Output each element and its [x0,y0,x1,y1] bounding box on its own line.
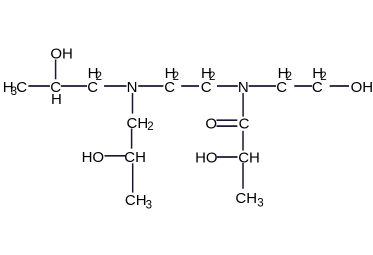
wire bond CH2-N1 [104,85,126,87]
wire bond HO-CH left branch [105,155,127,157]
wire bond CH-OH vertical [55,60,57,80]
wire bond HO-CH right branch [217,156,238,158]
node CH2 carbon C4 with H2 above [201,65,216,96]
wire bond CH-CH3 right branch vertical [242,163,244,189]
svg-text:C: C [16,79,27,96]
wire bond H3C-CH [28,85,50,87]
wire bond N1 vertical to CH2 [132,93,134,114]
wire double bond C=O upper line [217,119,238,121]
svg-text:C: C [164,79,175,96]
svg-text:C: C [87,79,98,96]
wire bond CH2-CH left branch vertical [131,129,133,149]
svg-text:3: 3 [146,200,152,212]
svg-text:C: C [201,79,212,96]
svg-text:CH: CH [127,115,149,132]
wire bond CH2-CH2 [181,85,199,87]
svg-text:C: C [239,115,250,132]
wire bond CH2-OH [330,85,349,87]
node CH3 methyl right branch [235,190,263,209]
svg-text:N: N [127,79,138,96]
svg-text:CH: CH [124,149,146,166]
node CH2 carbon C2 with H2 above [87,65,102,96]
svg-text:HO: HO [195,149,218,166]
node CH2 carbon C6 with H2 above [312,65,327,96]
svg-text:OH: OH [351,79,373,96]
svg-text:CH: CH [235,190,257,207]
node CH2 carbon C3 with H2 above [164,65,179,96]
wire bond CH-CH2 [61,85,87,87]
node CH carbon C1 [50,79,62,108]
wire bond N1-CH2 [138,85,163,87]
wire bond CH2-CH2 right [294,85,312,87]
svg-text:CH: CH [125,192,147,209]
node CH3 methyl left branch [125,192,152,212]
svg-text:HO: HO [82,149,105,166]
svg-text:H: H [51,91,62,108]
svg-text:N: N [238,79,249,96]
node H3C methyl left [3,79,27,98]
wire bond N2-CH2 [249,85,276,87]
wire bond CH-CH3 left branch vertical [132,163,134,192]
svg-text:3: 3 [257,198,263,210]
svg-text:2: 2 [147,121,153,133]
svg-text:CH: CH [238,149,260,166]
node CH2 carbon C5 with H2 above [276,65,292,96]
wire bond N2 vertical to C=O [242,93,244,117]
node CH2 left branch [127,115,154,133]
svg-text:O: O [205,115,217,132]
svg-text:C: C [276,79,287,96]
wire bond C-CH right branch vertical [242,131,244,151]
wire double bond C=O lower line [217,125,238,127]
svg-text:C: C [312,79,323,96]
svg-text:OH: OH [50,45,73,62]
wire bond CH2-N2 [217,85,238,87]
